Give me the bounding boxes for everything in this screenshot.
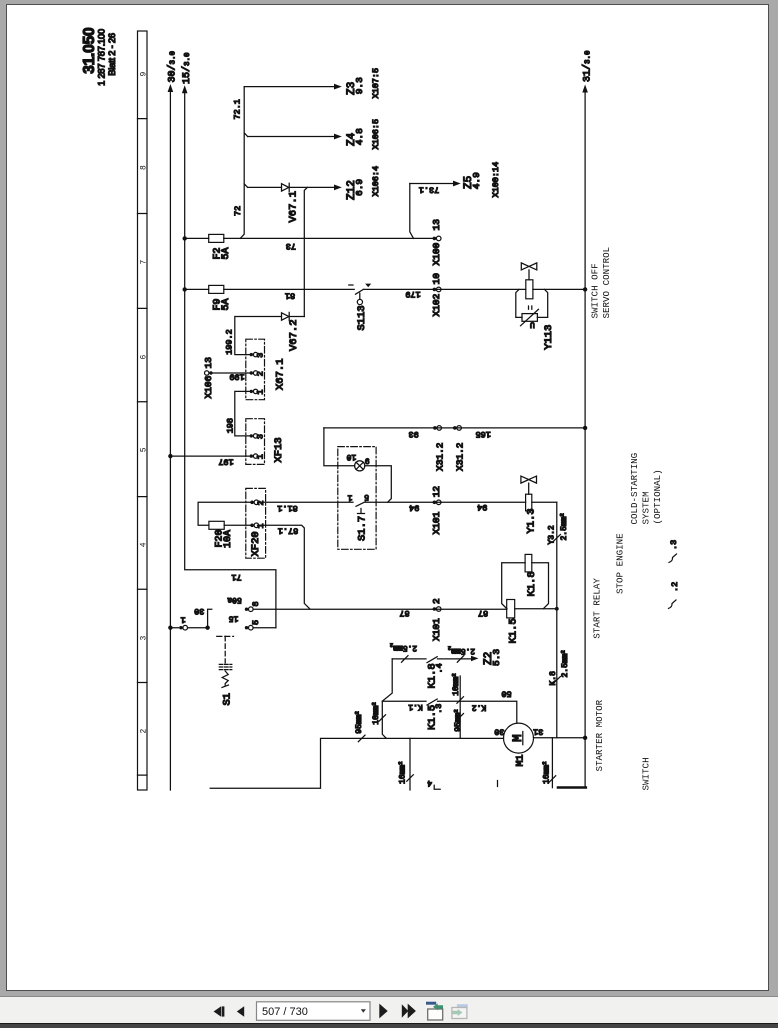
node junction 30/XF13: [168, 454, 172, 458]
pin 1 of XF13: [250, 454, 266, 459]
wire 197 30-line to XF13 pin1: [170, 456, 249, 467]
connector pin X101:12: [431, 486, 442, 535]
section label SWITCH OFF SERVO CONTROL: [590, 247, 612, 319]
ruler scale bar with sections 9..2: [138, 31, 149, 790]
title text Blatt 2 - 26: [107, 33, 117, 76]
wire trunk feeding Z3 Z4 Z12: [240, 87, 247, 239]
wire ground row 30: [210, 738, 503, 788]
contact 15 pin 5 of S1: [229, 614, 276, 631]
toolbar button first-page: [214, 1006, 225, 1016]
wire Z3 with arrow: [244, 84, 342, 90]
varistor of Y113: [516, 289, 548, 328]
toolbar button last-page: [402, 1004, 416, 1019]
wire 93 row to bus: [324, 427, 585, 429]
label Z2 5.3: [483, 649, 502, 666]
pin 2 of XF20: [250, 500, 266, 506]
connector pin X31.2 left: [433, 426, 446, 471]
cable marker K.8 2.5mm2: [549, 650, 570, 685]
section label START RELAY: [592, 578, 603, 639]
wire label 94 left: [409, 503, 419, 513]
wire 81 F9 row: [224, 288, 354, 290]
node junction bus31/wire179: [583, 287, 587, 291]
connector pin X106:13: [203, 357, 214, 399]
relay coil K1.8 branch: [502, 554, 549, 608]
valve symbol of Y1.3: [521, 476, 537, 494]
riser from ground row to K contacts: [382, 659, 392, 739]
toolbar button previous-page: [237, 1006, 244, 1017]
contact 50a pin 8 of S1: [227, 595, 261, 612]
wire bus 15 vertical: [181, 52, 276, 628]
wire label 30 motor: [494, 726, 504, 736]
wire 94 row S1.7 to Y1.3: [365, 501, 556, 503]
cable marker Y3.2 2.5mm2: [547, 513, 569, 544]
relay coil K1.5: [507, 600, 520, 644]
wire label K.2: [472, 702, 487, 711]
svg-text:507 / 730: 507 / 730: [262, 1006, 308, 1018]
toolbar button previous-view: [426, 1002, 443, 1020]
wire label 165: [476, 429, 491, 439]
indicator lamp in S1.7: [346, 452, 369, 471]
label X106:5: [371, 119, 381, 150]
wire label 72.1: [233, 99, 243, 119]
node junction 15/F2: [183, 236, 187, 240]
wire Y1.3 down K.8: [556, 502, 558, 738]
connector block XF13: [246, 419, 285, 465]
connector pin X100:13: [431, 219, 442, 266]
wire Z5 with arrow: [410, 181, 461, 239]
wire 87 row: [253, 608, 557, 610]
label Z5 4.9: [463, 172, 482, 189]
title text 31.050: [81, 28, 98, 74]
wire label 179: [405, 289, 420, 299]
solenoid coil Y113: [526, 280, 533, 299]
wire label 50: [501, 689, 511, 699]
connector pin X101:2: [431, 598, 442, 641]
label X106:4: [371, 166, 381, 197]
label Z4 4.8: [346, 128, 365, 146]
pin 3 of X67.1: [250, 352, 266, 357]
label Z12 6.9: [346, 179, 365, 200]
starter motor M1: [504, 723, 534, 766]
wire Z12 with arrow: [248, 185, 342, 191]
cable marker 95mm2 ground row: [354, 711, 366, 742]
wire label 94 right: [477, 502, 487, 512]
wire lamp to 94 row: [365, 466, 392, 503]
wire Z12 branch down to V67.2: [304, 187, 307, 316]
label Y113: [543, 325, 555, 350]
node junction 15/F9: [183, 287, 187, 291]
node junction 87/K.8: [555, 607, 559, 611]
pin 1 of X67.1: [250, 389, 266, 394]
fuse F9 5A: [185, 285, 232, 310]
wire label 31 motor: [533, 726, 543, 736]
wire bus 31 vertical right: [582, 50, 594, 788]
connector pin X102:10: [431, 273, 442, 317]
wire label 73.1: [419, 185, 439, 195]
fuse F20 10A loop: [198, 502, 250, 548]
fuse F2 5A: [185, 234, 232, 259]
wire bus 31 bottom corner: [558, 786, 586, 789]
diode V67.2: [282, 312, 305, 351]
connector block XF20: [246, 488, 266, 558]
toolbar button next-page: [379, 1004, 387, 1019]
wire 179 row: [363, 288, 585, 290]
cut-off glyphs at drawing edge: [427, 778, 497, 789]
riser 16mm2 left: [397, 738, 413, 790]
solenoid coil Y1.3: [525, 494, 537, 533]
wire label K.1: [408, 702, 423, 711]
wire label 72: [233, 206, 243, 216]
wire 93 drop to lamp: [324, 428, 355, 466]
ignition switch S1 terminal 30: [170, 606, 211, 630]
wire 31 motor to bus: [534, 737, 586, 739]
section label STOP ENGINE: [614, 533, 625, 594]
connector pin X31.2 right: [453, 426, 466, 471]
wire label 87 left: [399, 608, 409, 618]
switch S113: [349, 284, 371, 331]
cable marker 2.5mm2 right: [448, 644, 475, 662]
valve symbol of Y113: [521, 263, 537, 280]
wire Z4 with arrow: [248, 134, 342, 140]
title text 1 287 787.100: [97, 29, 107, 86]
label X100:14: [491, 162, 501, 198]
diode V67.1: [282, 183, 300, 222]
section label STARTER MOTOR: [594, 699, 605, 771]
contact S1.7: [347, 492, 369, 541]
contact K1.5 .3: [382, 699, 517, 730]
label Z3 9.3: [346, 77, 365, 95]
continuation mark S1 .3: [669, 540, 679, 563]
wire label 73: [286, 241, 296, 251]
node junction 30/S1: [168, 626, 172, 630]
wire bus 30 vertical: [167, 50, 179, 790]
toolbar page-number box 507 / 730: [257, 1002, 371, 1021]
ignition switch S1 mechanism: [217, 636, 234, 705]
continuation mark S1 .2: [669, 582, 680, 609]
riser 10mm2 95mm2 mid: [451, 673, 464, 738]
wire label 87 right: [478, 608, 488, 618]
wire 87.1 XF20 pin1 down to wire 87: [259, 525, 310, 609]
wire label 81: [285, 291, 295, 301]
wire label 71: [231, 572, 241, 582]
toolbar button next-view disabled: [452, 1004, 468, 1018]
connector block X67.1: [246, 339, 287, 400]
section label COLD-STARTING SYSTEM (OPTIONAL): [629, 453, 663, 525]
contact K1.8 .4: [392, 656, 478, 689]
cable marker 2.5mm2 left: [390, 642, 417, 663]
pin 3 of XF13: [250, 434, 266, 439]
section label SWITCH: [641, 757, 652, 790]
cable marker 10mm2 left riser: [371, 702, 386, 725]
switch unit box S1.7: [338, 447, 376, 550]
riser 16mm2 right: [541, 738, 556, 788]
wire 73 F2 row: [224, 237, 433, 239]
node junction bus31/wire93: [583, 426, 587, 430]
label X107:5: [371, 68, 381, 99]
wire 81.1 XF20 pin2 to S1.7: [259, 502, 353, 513]
wire 199.2 from V67.2 to X67.1 pin3: [224, 317, 281, 355]
pin 1 of XF20: [250, 523, 266, 529]
wire 198 X67.1 pin1 to XF13 pin3: [225, 391, 249, 436]
wire 199 X106:13 to X67.1 pin2: [213, 372, 250, 382]
pin 2 of X67.1: [250, 371, 266, 376]
wire label 93: [408, 429, 418, 439]
node junction bus31/motor: [583, 736, 587, 740]
